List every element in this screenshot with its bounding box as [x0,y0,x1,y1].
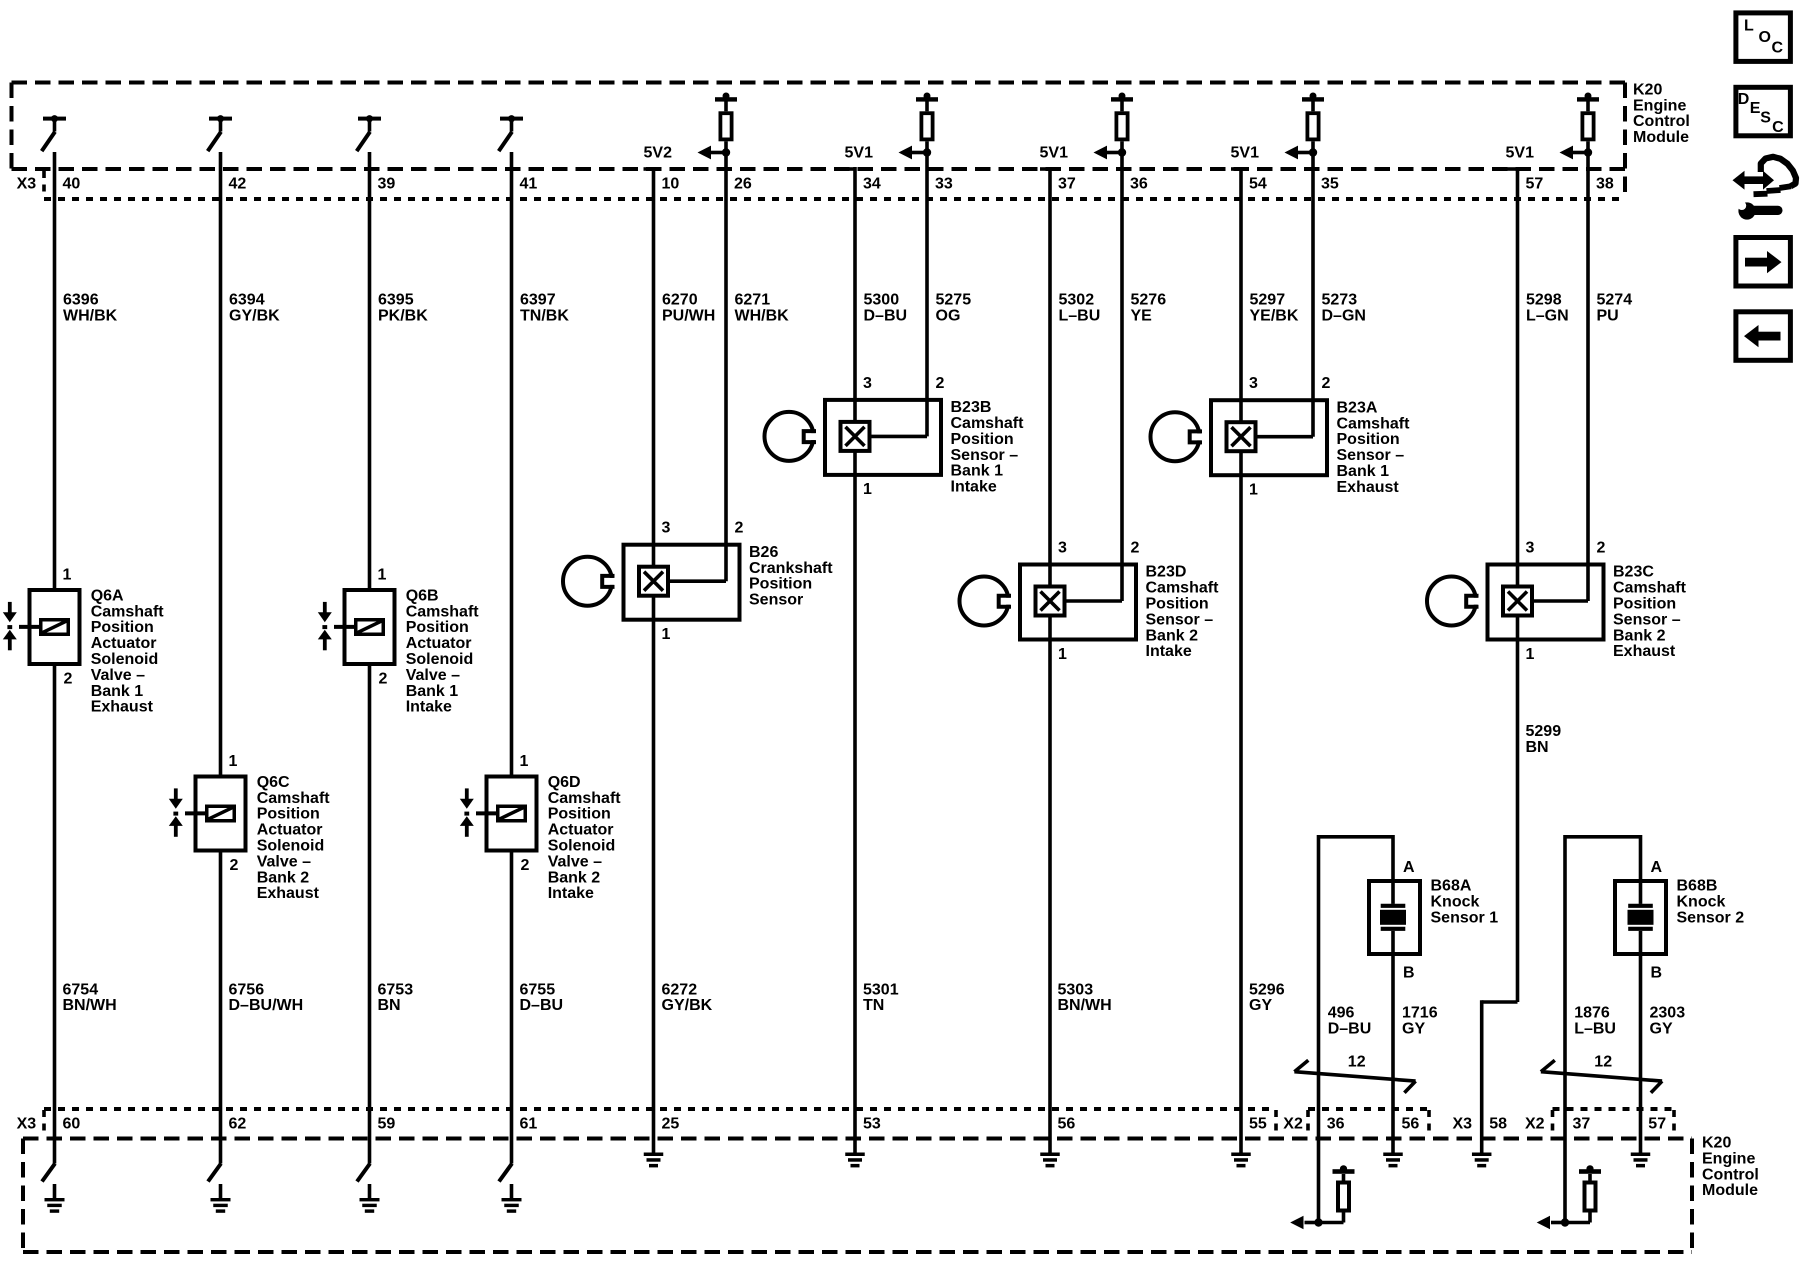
ECM internal switch to ground (pin 59) [357,1164,370,1182]
svg-text:D–BU: D–BU [864,308,908,325]
svg-text:TN/BK: TN/BK [520,308,569,325]
svg-text:X3: X3 [1453,1116,1473,1133]
ground stub at pin 56 [1040,1139,1060,1168]
svg-text:Valve –: Valve – [257,853,311,870]
svg-text:40: 40 [63,176,81,193]
ECM internal switch to ground (pin 61) [499,1164,512,1182]
svg-text:3: 3 [1058,540,1067,557]
svg-text:Actuator: Actuator [406,635,472,652]
svg-text:Position: Position [548,806,611,823]
solenoid Q6A valve arrows [3,602,17,650]
svg-text:GY: GY [1650,1021,1673,1038]
svg-text:Crankshaft: Crankshaft [749,560,833,577]
svg-text:Sensor –: Sensor – [1146,611,1214,628]
svg-text:54: 54 [1249,176,1267,193]
svg-text:1: 1 [378,566,387,583]
ground stub at pin 25 [644,1139,664,1168]
svg-text:Module: Module [1633,129,1689,146]
solenoid valve Q6D coil box [487,777,537,851]
wire 6394 GY/BK (pin 42 to solenoid) [219,152,223,775]
svg-text:59: 59 [378,1116,396,1133]
svg-text:Bank 1: Bank 1 [951,463,1004,480]
wire 5274 PU (pin 38 to B23C pin 2) [1586,141,1590,601]
wire 1716 GY (B68A pin B to bottom connector) [1391,956,1395,1153]
svg-text:496: 496 [1328,1005,1355,1022]
solenoid Q6A coil element [41,620,69,635]
svg-text:55: 55 [1249,1116,1267,1133]
svg-text:Valve –: Valve – [406,667,460,684]
svg-text:B: B [1651,965,1663,982]
svg-text:35: 35 [1321,176,1339,193]
svg-text:5299: 5299 [1526,723,1562,740]
svg-text:2303: 2303 [1650,1005,1686,1022]
svg-text:25: 25 [662,1116,680,1133]
svg-text:5300: 5300 [864,292,900,309]
svg-text:10: 10 [662,176,680,193]
svg-text:1716: 1716 [1402,1005,1438,1022]
svg-text:Exhaust: Exhaust [257,885,320,902]
svg-text:Q6A: Q6A [91,587,124,604]
svg-text:K20: K20 [1702,1135,1731,1152]
5V reference arrow 5V2 [698,146,731,160]
ECM knock input arrow (wire x=1318.5) [1290,1216,1323,1230]
ECM pull-up resistor (wire 927) [916,93,938,140]
svg-text:Bank 2: Bank 2 [1146,627,1199,644]
connector bracket verticals (bottom) [44,1110,1674,1137]
ECM pull-up resistor (wire 1313) [1302,93,1324,140]
svg-text:BN: BN [378,997,401,1014]
svg-text:B23D: B23D [1146,564,1187,581]
svg-text:Actuator: Actuator [257,822,323,839]
svg-text:6396: 6396 [63,292,99,309]
svg-text:D: D [1738,91,1750,108]
svg-text:Position: Position [91,619,154,636]
ECM bottom dashed box K20 Engine Control Module [23,1139,1692,1253]
sensor B23C reluctor wheel circle [1427,577,1479,626]
icon DESC box [1736,87,1791,136]
solenoid valve Q6C coil box [196,777,246,851]
5V reference arrow 5V1 [1560,146,1593,160]
sensor B23D element (X box) [1036,587,1065,616]
svg-text:Camshaft: Camshaft [951,415,1025,432]
sensor B26 housing box [624,545,740,620]
svg-text:5302: 5302 [1059,292,1095,309]
svg-text:12: 12 [1348,1054,1366,1071]
sensor B23C pin 2 internal wire [1532,599,1589,603]
svg-text:Solenoid: Solenoid [548,838,616,855]
svg-text:5297: 5297 [1250,292,1286,309]
wire 2303 GY (B68B pin B to bottom connector) [1639,956,1643,1153]
svg-text:Position: Position [951,431,1014,448]
svg-text:D–BU: D–BU [520,997,564,1014]
wire 5298 L-GN (pin 57 to B23C pin 3) [1516,167,1520,1002]
svg-text:C: C [1772,119,1784,136]
svg-text:1: 1 [1058,646,1067,663]
svg-text:1: 1 [229,753,238,770]
svg-text:2: 2 [521,857,530,874]
svg-text:Module: Module [1702,1182,1758,1199]
svg-text:5298: 5298 [1526,292,1562,309]
svg-text:Position: Position [406,619,469,636]
solenoid Q6C coil element [207,806,235,821]
ECM knock input bias resistor (wire x=1565) [1565,1165,1601,1222]
wire 6754 BN/WH (solenoid to pin 60) [53,666,57,1164]
svg-text:A: A [1651,859,1663,876]
ground stub under B68B pin B wire [1631,1153,1651,1168]
sensor B23A housing box [1211,400,1327,475]
svg-text:Actuator: Actuator [91,635,157,652]
svg-text:1: 1 [863,481,872,498]
svg-text:6271: 6271 [735,292,771,309]
svg-text:Solenoid: Solenoid [257,838,325,855]
svg-text:38: 38 [1596,176,1614,193]
svg-text:B23B: B23B [951,399,992,416]
svg-text:TN: TN [863,997,884,1014]
svg-text:Position: Position [1337,431,1400,448]
svg-text:Position: Position [1146,596,1209,613]
svg-text:1: 1 [520,753,529,770]
sensor B26 pin 2 internal wire [668,579,727,583]
svg-text:2: 2 [1597,540,1606,557]
sensor B23C housing box [1488,565,1604,640]
svg-text:2: 2 [64,671,73,688]
wire 1876 L&#8211;BU (pin to B68B pin A) [1565,835,1641,1223]
sensor B23D pin 2 internal wire [1064,599,1122,603]
svg-text:BN/WH: BN/WH [1058,997,1112,1014]
svg-text:Exhaust: Exhaust [1613,643,1676,660]
sensor B23B element (X box) [841,422,870,451]
svg-text:39: 39 [378,176,396,193]
svg-text:1876: 1876 [1574,1005,1610,1022]
svg-text:1: 1 [662,626,671,643]
svg-text:X3: X3 [17,176,37,193]
svg-text:33: 33 [935,176,953,193]
svg-text:S: S [1760,109,1771,126]
svg-text:Knock: Knock [1677,893,1726,910]
5V reference arrow 5V1 [1094,146,1127,160]
svg-text:E: E [1750,100,1761,117]
svg-text:B23A: B23A [1337,399,1378,416]
svg-text:3: 3 [1526,540,1535,557]
svg-text:GY: GY [1249,997,1272,1014]
solenoid valve Q6A coil box [30,590,80,664]
ECM low-side driver (open switch) for pin 42 [208,115,232,151]
svg-text:58: 58 [1489,1116,1507,1133]
svg-text:BN/WH: BN/WH [63,997,117,1014]
svg-text:1: 1 [63,566,72,583]
svg-text:Intake: Intake [548,885,594,902]
solenoid valve Q6B coil box [345,590,395,664]
svg-text:X2: X2 [1525,1116,1545,1133]
svg-text:L: L [1744,17,1754,34]
svg-text:L–BU: L–BU [1059,308,1101,325]
svg-text:Bank 1: Bank 1 [406,683,459,700]
sensor B23A pin 2 internal wire [1255,435,1313,439]
svg-text:3: 3 [1249,375,1258,392]
svg-text:62: 62 [229,1116,247,1133]
svg-text:Camshaft: Camshaft [1613,580,1687,597]
svg-text:Position: Position [1613,596,1676,613]
svg-text:D–BU: D–BU [1328,1021,1372,1038]
svg-text:5V2: 5V2 [644,144,673,161]
ECM bottom connector face dotted line [44,1107,1674,1111]
5V reference arrow 5V1 [1285,146,1318,160]
ECM knock input arrow (wire x=1565) [1537,1216,1570,1230]
svg-text:Sensor: Sensor [749,592,803,609]
svg-text:37: 37 [1573,1116,1591,1133]
svg-text:5273: 5273 [1322,292,1358,309]
ECM low-side driver (open switch) for pin 41 [499,115,523,151]
svg-text:Camshaft: Camshaft [91,603,165,620]
svg-text:2: 2 [1322,375,1331,392]
svg-text:WH/BK: WH/BK [63,308,118,325]
ground stub at pin 58 [1472,1139,1492,1168]
svg-text:L–BU: L–BU [1574,1021,1616,1038]
svg-text:Position: Position [257,806,320,823]
svg-text:Control: Control [1633,113,1690,130]
svg-text:53: 53 [863,1116,881,1133]
svg-text:60: 60 [63,1116,81,1133]
svg-text:61: 61 [520,1116,538,1133]
svg-text:Sensor –: Sensor – [951,447,1019,464]
svg-text:42: 42 [229,176,247,193]
svg-text:5V1: 5V1 [845,144,874,161]
svg-text:WH/BK: WH/BK [735,308,790,325]
svg-text:C: C [1772,40,1784,57]
ground (pin 61) [502,1184,522,1213]
pin stub tick (top, wire x=1517.5) [1508,167,1518,171]
ECM pull-up resistor (wire 726) [715,93,737,140]
svg-text:37: 37 [1058,176,1076,193]
wire 6756 D&#8211;BU/WH (solenoid to pin 62) [219,853,223,1164]
wire 5276 YE (pin 36 to B23D pin 2) [1120,141,1124,601]
svg-text:Camshaft: Camshaft [1337,415,1411,432]
svg-text:Bank 2: Bank 2 [257,869,310,886]
wire 5299 BN jog to pin 58 [1482,1000,1518,1138]
wire 6755 D&#8211;BU (solenoid to pin 61) [510,853,514,1164]
svg-text:41: 41 [520,176,538,193]
svg-text:5275: 5275 [936,292,972,309]
svg-text:Camshaft: Camshaft [406,603,480,620]
solenoid Q6C valve arrows [169,788,183,836]
svg-text:12: 12 [1594,1054,1612,1071]
ECM pull-up resistor (wire 1122) [1111,93,1133,140]
svg-text:K20: K20 [1633,81,1662,98]
svg-text:5V1: 5V1 [1040,144,1069,161]
svg-text:Camshaft: Camshaft [1146,580,1220,597]
sensor B23A reluctor wheel circle [1151,412,1203,461]
sensor B26 element (X box) [639,567,668,596]
ground stub at pin 55 [1231,1139,1251,1168]
svg-text:X3: X3 [17,1116,37,1133]
pin stub tick (top, wire x=855) [845,167,855,171]
solenoid Q6B valve arrows [318,602,332,650]
pin stub tick (top, wire x=1050) [1040,167,1050,171]
sensor B23A element (X box) [1227,422,1256,451]
wire 6395 PK/BK (pin 39 to solenoid) [368,152,372,588]
svg-text:Sensor –: Sensor – [1613,611,1681,628]
svg-text:Q6D: Q6D [548,774,581,791]
svg-text:Solenoid: Solenoid [406,651,474,668]
svg-text:Bank 2: Bank 2 [548,869,601,886]
sensor B23B pin 2 internal wire [869,435,927,439]
svg-text:5V1: 5V1 [1231,144,1260,161]
icon connector harness view [1733,157,1797,220]
ground (pin 59) [360,1184,380,1213]
svg-text:X2: X2 [1283,1116,1303,1133]
ground stub under B68A pin B wire [1383,1153,1403,1168]
wire 5302 L-BU (pin 37 to B23D pin 3) and 5303 BN/WH (B23D pin 1 to pin 56) [1048,167,1052,1139]
svg-text:1: 1 [1526,646,1535,663]
ECM top connector face dotted line [44,197,1625,201]
svg-text:2: 2 [379,671,388,688]
svg-text:GY/BK: GY/BK [229,308,280,325]
svg-text:57: 57 [1526,176,1544,193]
svg-text:PU/WH: PU/WH [662,308,715,325]
knock sensor B68B piezo element [1628,879,1654,956]
wire 6396 WH/BK (pin 40 to solenoid) [53,152,57,588]
svg-text:6397: 6397 [520,292,556,309]
wire 6397 TN/BK (pin 41 to solenoid) [510,152,514,775]
wire 5273 D-GN (pin 35 to B23A pin 2) [1311,141,1315,436]
svg-text:Engine: Engine [1702,1150,1755,1167]
svg-text:Sensor –: Sensor – [1337,447,1405,464]
wire 6270 PU/WH (pin 10 to B26 pin 3) and 6272 GY/BK (B26 pin 1 to pin 25) [652,167,656,1139]
svg-text:2: 2 [936,375,945,392]
svg-text:Exhaust: Exhaust [91,699,154,716]
svg-text:6395: 6395 [378,292,414,309]
svg-text:36: 36 [1327,1116,1345,1133]
svg-text:5V1: 5V1 [1506,144,1535,161]
ECM internal switch to ground (pin 62) [208,1164,221,1182]
svg-text:56: 56 [1402,1116,1420,1133]
wire 6753 BN (solenoid to pin 59) [368,666,372,1164]
svg-text:Knock: Knock [1431,893,1480,910]
svg-text:PU: PU [1597,308,1619,325]
svg-text:Bank 2: Bank 2 [1613,627,1666,644]
wire 5275 OG (pin 33 to B23B pin 2) [925,141,929,436]
knock sensor B68A piezo element [1380,879,1406,956]
svg-text:Camshaft: Camshaft [548,790,622,807]
knock sensor B68A box [1369,881,1420,954]
solenoid Q6B coil element [356,620,384,635]
svg-text:B: B [1403,965,1415,982]
sensor B23D reluctor wheel circle [960,577,1012,626]
solenoid Q6D actuator link [476,811,496,815]
solenoid Q6A actuator link [19,625,39,629]
svg-text:Valve –: Valve – [91,667,145,684]
svg-text:D–GN: D–GN [1322,308,1366,325]
svg-text:6270: 6270 [662,292,698,309]
svg-text:Camshaft: Camshaft [257,790,331,807]
harness 12 crossing mark at B68A wires [1294,1060,1415,1093]
svg-text:1: 1 [1249,482,1258,499]
svg-text:Valve –: Valve – [548,853,602,870]
sensor B23B reluctor wheel circle [765,412,817,461]
svg-text:5276: 5276 [1131,292,1167,309]
svg-text:Solenoid: Solenoid [91,651,159,668]
ground stub at pin 53 [845,1139,865,1168]
solenoid Q6D valve arrows [460,788,474,836]
svg-text:A: A [1403,859,1415,876]
ECM knock input bias resistor (wire x=1318.5) [1319,1165,1355,1222]
ECM low-side driver (open switch) for pin 40 [42,115,66,151]
svg-text:YE/BK: YE/BK [1250,308,1299,325]
ground (pin 62) [211,1184,231,1213]
knock sensor B68B box [1615,881,1666,954]
svg-text:3: 3 [662,520,671,537]
svg-text:B26: B26 [749,544,778,561]
ECM internal switch to ground (pin 60) [42,1164,55,1182]
svg-text:Sensor 1: Sensor 1 [1431,909,1499,926]
svg-text:Bank 1: Bank 1 [91,683,144,700]
svg-text:GY/BK: GY/BK [662,997,713,1014]
svg-text:B68B: B68B [1677,878,1718,895]
solenoid Q6D coil element [498,806,526,821]
svg-text:5274: 5274 [1597,292,1633,309]
ECM pull-up resistor (wire 1588) [1577,93,1599,140]
svg-text:Intake: Intake [406,699,452,716]
svg-text:56: 56 [1058,1116,1076,1133]
svg-text:PK/BK: PK/BK [378,308,428,325]
svg-text:6394: 6394 [229,292,265,309]
svg-text:2: 2 [230,857,239,874]
svg-text:GY: GY [1402,1021,1425,1038]
pin stub tick (top, wire x=1241) [1231,167,1241,171]
sensor B23B housing box [825,400,941,475]
svg-text:Control: Control [1702,1166,1759,1183]
svg-text:Bank 1: Bank 1 [1337,463,1390,480]
wire 496 D&#8211;BU (pin to B68A pin A) [1319,835,1394,1223]
wire 5300 D-BU (pin 34 to B23B pin 3) and 5301 TN (B23B pin 1 to pin 53) [853,167,857,1139]
sensor B23D housing box [1020,565,1136,640]
svg-text:2: 2 [735,520,744,537]
harness 12 crossing mark at B68B wires [1541,1060,1662,1093]
svg-text:L–GN: L–GN [1526,308,1569,325]
svg-text:Actuator: Actuator [548,822,614,839]
sensor B26 reluctor wheel circle [563,557,615,606]
svg-text:Exhaust: Exhaust [1337,479,1400,496]
connector X3 bracket (top) [42,171,46,197]
wire 6271 WH/BK (pin 26 to B26 pin 2) [724,141,728,581]
svg-text:O: O [1759,29,1771,46]
5V reference arrow 5V1 [899,146,932,160]
svg-text:Position: Position [749,576,812,593]
svg-text:Q6B: Q6B [406,587,439,604]
svg-text:36: 36 [1130,176,1148,193]
ECM low-side driver (open switch) for pin 39 [357,115,381,151]
svg-text:34: 34 [863,176,881,193]
sensor B23C element (X box) [1503,587,1532,616]
svg-text:26: 26 [734,176,752,193]
icon arrow left box [1736,312,1791,361]
svg-text:B68A: B68A [1431,878,1472,895]
svg-text:BN: BN [1526,739,1549,756]
svg-text:57: 57 [1648,1116,1666,1133]
svg-text:Intake: Intake [1146,643,1192,660]
svg-text:D–BU/WH: D–BU/WH [229,997,304,1014]
svg-text:2: 2 [1131,540,1140,557]
svg-text:Sensor 2: Sensor 2 [1677,909,1745,926]
solenoid Q6C actuator link [185,811,205,815]
pin stub tick (top, wire x=653.5) [644,167,654,171]
svg-text:B23C: B23C [1613,564,1654,581]
svg-text:3: 3 [863,375,872,392]
svg-text:Intake: Intake [951,479,997,496]
icon arrow right box [1736,238,1791,287]
icon LOC box [1736,13,1791,62]
ground (pin 60) [45,1184,65,1213]
